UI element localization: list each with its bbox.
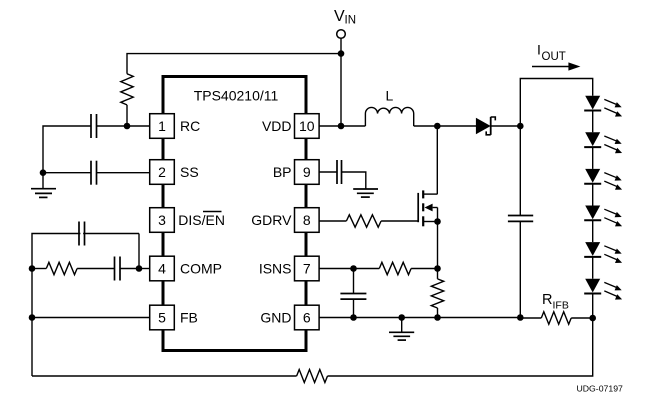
wire pin 7 to ISNS node <box>319 268 353 270</box>
svg-text:I: I <box>537 42 541 58</box>
svg-text:5: 5 <box>158 310 166 326</box>
wire C7 to ground <box>342 172 366 189</box>
node VIN junction dot <box>338 50 345 57</box>
resistor R1 (RC charge, vertical) <box>121 74 133 105</box>
resistor RIFB <box>541 312 571 324</box>
svg-text:TPS40210/11: TPS40210/11 <box>194 88 279 104</box>
node output junction dot <box>517 123 524 130</box>
wire SS cap left lead <box>43 172 91 174</box>
led D5 <box>584 206 622 227</box>
pin 7 box <box>295 256 320 281</box>
node ISNS filter dot <box>350 265 357 272</box>
led D2 <box>584 96 622 117</box>
svg-text:OUT: OUT <box>542 51 566 63</box>
capacitor C4 (comp series) <box>114 257 116 281</box>
wire sense node to R5res <box>437 269 439 279</box>
resistor R5 (current sense) <box>431 279 443 308</box>
svg-text:9: 9 <box>303 164 311 180</box>
svg-text:GND: GND <box>260 310 291 326</box>
wire led D5 to D6 <box>592 220 594 242</box>
wire comp branch down to COMP node <box>138 234 140 269</box>
resistor R6 (gate) <box>346 215 381 227</box>
wire inductor to switch node <box>414 125 438 127</box>
wire diode cathode to output node <box>491 125 521 127</box>
wire R2 to C4 <box>77 268 114 270</box>
overline for EN <box>203 211 222 213</box>
svg-text:2: 2 <box>158 164 166 180</box>
pin 1 box <box>150 114 175 139</box>
wire ISNS node to R4 <box>354 268 380 270</box>
wire R6 to gate <box>381 220 418 222</box>
wire C5 to ground rail <box>519 221 521 317</box>
wire R1 bottom to RC node <box>126 105 128 126</box>
svg-text:1: 1 <box>158 118 166 134</box>
svg-text:3: 3 <box>158 212 166 228</box>
led D4 <box>584 169 622 190</box>
svg-text:10: 10 <box>299 118 315 134</box>
wire pin 8 to R6 <box>319 220 346 222</box>
svg-text:V: V <box>334 8 345 25</box>
ground symbol main <box>401 318 403 333</box>
node VDD junction dot <box>338 123 345 130</box>
svg-text:SS: SS <box>180 164 199 180</box>
node R5 ground dot <box>434 314 441 321</box>
wire R4 to sense node <box>411 268 437 270</box>
led D3 <box>584 132 622 153</box>
wire output rail to C5 <box>519 126 521 216</box>
capacitor C7 (bypass) <box>336 160 338 184</box>
wire C1 left lead down to ground rail <box>43 126 91 173</box>
wire C4 to COMP node <box>120 268 139 270</box>
svg-text:4: 4 <box>158 261 166 277</box>
wire RC node to pin 1 <box>127 125 150 127</box>
wire led D6 to D7 <box>592 257 594 279</box>
wire C6 to ground rail <box>353 299 355 317</box>
Q1 drain lead <box>423 193 437 195</box>
resistor R3 (feedback, bottom) <box>297 370 328 383</box>
wire VIN vertical <box>340 54 342 126</box>
Q1 channel segments <box>422 190 424 198</box>
wire ground rail from pin 6 <box>319 317 520 319</box>
capacitor C2 (soft start) <box>90 161 92 185</box>
pin 10 box <box>295 114 320 139</box>
capacitor C1 (RC timing) <box>90 114 92 138</box>
Q1 source lead <box>423 221 437 223</box>
svg-text:DIS/EN: DIS/EN <box>178 212 225 228</box>
node LED cathode junction dot <box>589 315 596 322</box>
node main ground dot <box>398 314 405 321</box>
capacitor C5 (output) <box>508 215 533 217</box>
wire switch node to diode anode <box>437 125 476 127</box>
led D6 <box>584 242 622 263</box>
wire output top rail <box>520 79 592 127</box>
wire led D4 to D5 <box>592 184 594 206</box>
resistor R4 (ISNS filter) <box>379 262 411 274</box>
wire pin 10 to VIN node <box>319 125 341 127</box>
node C6 ground dot <box>350 314 357 321</box>
ground symbol left <box>42 173 44 189</box>
capacitor C6 (ISNS filter) <box>340 293 366 295</box>
svg-text:7: 7 <box>303 261 311 277</box>
VIN terminal circle <box>337 30 346 39</box>
diode D1 (schottky) <box>476 118 491 134</box>
wire C2 to pin 2 <box>97 172 150 174</box>
wire RIFB to LED cathode node <box>571 317 593 319</box>
resistor R2 (comp) <box>46 262 77 274</box>
pin 8 box <box>295 208 320 233</box>
wire body to source <box>437 208 439 222</box>
wire last led to cathode node <box>592 294 594 319</box>
transistor Q1 (NMOS) gate bar <box>417 193 419 222</box>
svg-text:IFB: IFB <box>553 300 569 312</box>
ground symbol BP <box>353 188 378 190</box>
node switch junction dot <box>434 123 441 130</box>
wire source down to ISNS node <box>437 222 439 269</box>
wire VIN terminal to junction <box>340 38 342 53</box>
svg-text:ISNS: ISNS <box>259 261 292 277</box>
node RC junction dot <box>124 123 131 130</box>
wire bottom feedback run <box>32 375 297 377</box>
wire COMP node to pin 4 <box>139 268 150 270</box>
svg-text:RC: RC <box>180 118 200 134</box>
svg-text:GDRV: GDRV <box>251 212 292 228</box>
node FB rail dot <box>29 314 36 321</box>
Q1 body arrow <box>425 204 433 212</box>
svg-text:FB: FB <box>180 310 198 326</box>
svg-text:VDD: VDD <box>262 118 292 134</box>
wire led D2 to D3 <box>592 111 594 133</box>
wire ISNS node down to C6 <box>353 269 355 294</box>
wire FB pin 5 to left rail <box>32 317 150 319</box>
IOUT arrow <box>532 66 569 68</box>
IC U1 TPS40210/11 body <box>163 77 306 351</box>
wire R5res to ground rail <box>437 308 439 318</box>
node source junction dot <box>434 218 441 225</box>
svg-text:COMP: COMP <box>180 261 222 277</box>
svg-text:6: 6 <box>303 310 311 326</box>
pin 2 box <box>150 160 175 185</box>
wire drain up to switch node <box>436 126 438 194</box>
svg-text:BP: BP <box>273 164 292 180</box>
node comp left rail dot <box>29 265 36 272</box>
node sense junction dot <box>434 265 441 272</box>
pin 6 box <box>295 305 320 330</box>
svg-text:IN: IN <box>345 15 357 27</box>
wire VIN junction left and down to R1 <box>127 54 341 74</box>
wire led D3 to D4 <box>592 147 594 169</box>
pin 9 box <box>295 160 320 185</box>
pin 5 box <box>150 305 175 330</box>
svg-text:8: 8 <box>303 212 311 228</box>
capacitor C3 (comp upper) <box>78 222 80 246</box>
wire ground node to RIFB <box>520 317 541 319</box>
pin 3 box <box>150 208 175 233</box>
pin 4 box <box>150 256 175 281</box>
svg-text:L: L <box>386 88 394 104</box>
wire rail to R2 <box>32 268 46 270</box>
wire R3 to LED cathode rail <box>328 318 593 376</box>
wire pin 9 to C7 <box>319 171 337 173</box>
node COMP junction dot <box>136 265 143 272</box>
inductor L <box>365 107 413 126</box>
led D7 <box>584 279 622 300</box>
node SS/ground junction dot <box>40 169 47 176</box>
node output cap ground dot <box>517 314 524 321</box>
wire feedback left rail <box>32 234 139 377</box>
svg-text:R: R <box>542 292 552 308</box>
svg-text:UDG-07197: UDG-07197 <box>577 383 624 393</box>
wire RC cap right lead <box>97 125 128 127</box>
wire VDD node to inductor <box>341 125 365 127</box>
